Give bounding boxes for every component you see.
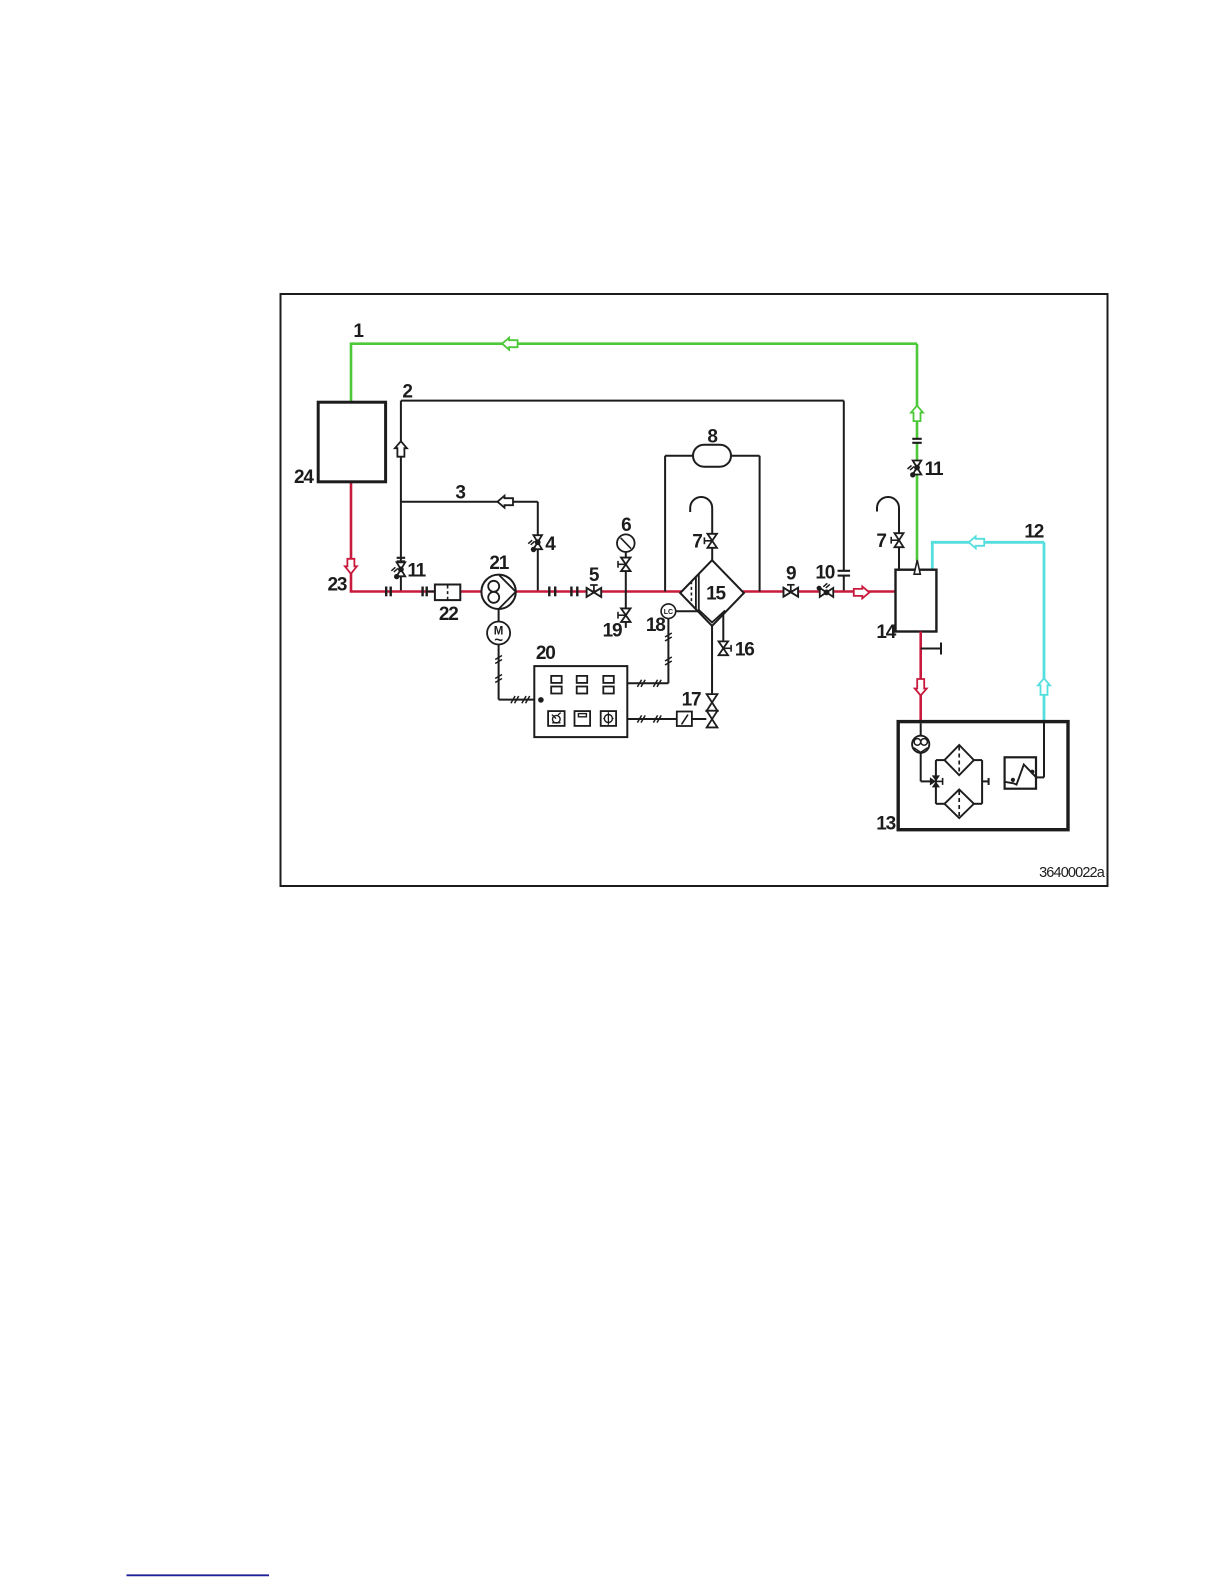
svg-text:6: 6 [621, 515, 631, 536]
svg-text:LC: LC [664, 609, 673, 616]
svg-text:13: 13 [876, 814, 895, 835]
svg-text:9: 9 [786, 564, 796, 585]
svg-text:7: 7 [876, 531, 886, 552]
svg-text:11: 11 [407, 560, 426, 581]
svg-text:19: 19 [603, 621, 622, 642]
svg-text:3: 3 [455, 483, 465, 504]
svg-text:5: 5 [589, 565, 600, 586]
svg-text:11: 11 [925, 459, 944, 480]
svg-text:22: 22 [439, 604, 458, 625]
svg-text:12: 12 [1024, 522, 1043, 543]
svg-text:2: 2 [402, 382, 412, 403]
svg-text:16: 16 [735, 639, 754, 660]
svg-text:15: 15 [706, 583, 726, 604]
svg-text:18: 18 [646, 615, 665, 636]
svg-text:17: 17 [682, 690, 701, 711]
svg-text:7: 7 [692, 532, 702, 553]
svg-text:10: 10 [815, 563, 834, 584]
svg-text:24: 24 [294, 467, 314, 488]
svg-text:21: 21 [489, 553, 509, 574]
svg-text:23: 23 [328, 575, 347, 596]
svg-text:20: 20 [536, 643, 555, 664]
svg-text:4: 4 [545, 534, 556, 555]
svg-text:1: 1 [353, 321, 364, 342]
svg-text:14: 14 [876, 622, 896, 643]
svg-text:36400022a: 36400022a [1039, 865, 1106, 881]
svg-text:8: 8 [707, 427, 717, 448]
